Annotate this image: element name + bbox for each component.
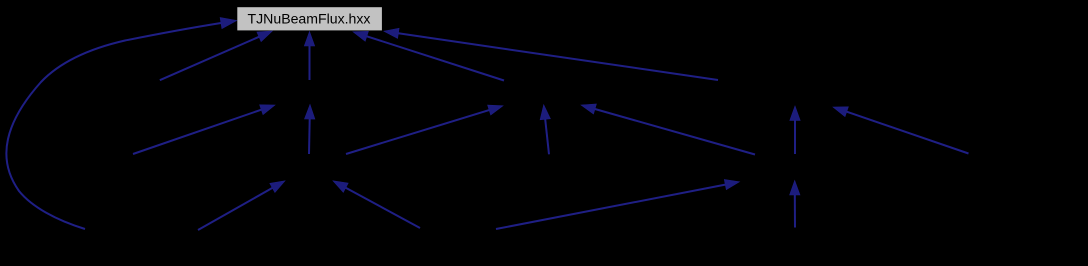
edge L4: node12 -> node9 xyxy=(496,180,740,230)
edge I: node8 -> node4 xyxy=(540,105,550,155)
edge F: node7 -> node3 xyxy=(305,105,315,155)
edge V1: node9 -> node5 xyxy=(790,106,800,154)
edge B: node3 -> TJNuBeamFlux.hxx xyxy=(304,32,314,81)
svg-text:TJNuBeamFlux.hxx: TJNuBeamFlux.hxx xyxy=(248,11,371,27)
edge E: node1 -> TJNuBeamFlux.hxx (curved) xyxy=(6,18,236,230)
edge J2: node9 -> node4 xyxy=(581,104,755,155)
edge D: node5 -> TJNuBeamFlux.hxx xyxy=(384,28,718,80)
edge J: node10 -> node5 xyxy=(833,107,969,154)
edge L2: node11 -> node7 xyxy=(198,181,285,230)
edge V2: node13 -> node9 xyxy=(790,181,800,228)
edge C: node4 -> TJNuBeamFlux.hxx xyxy=(353,31,504,80)
edge H: node7 -> node4 xyxy=(346,105,503,154)
node TJNuBeamFlux.hxx (main) xyxy=(237,7,382,30)
edge L3: node12 -> node7 xyxy=(333,181,420,228)
edge A: node2 -> TJNuBeamFlux.hxx xyxy=(160,31,272,80)
edge L1: node6 -> node3 xyxy=(133,105,275,154)
